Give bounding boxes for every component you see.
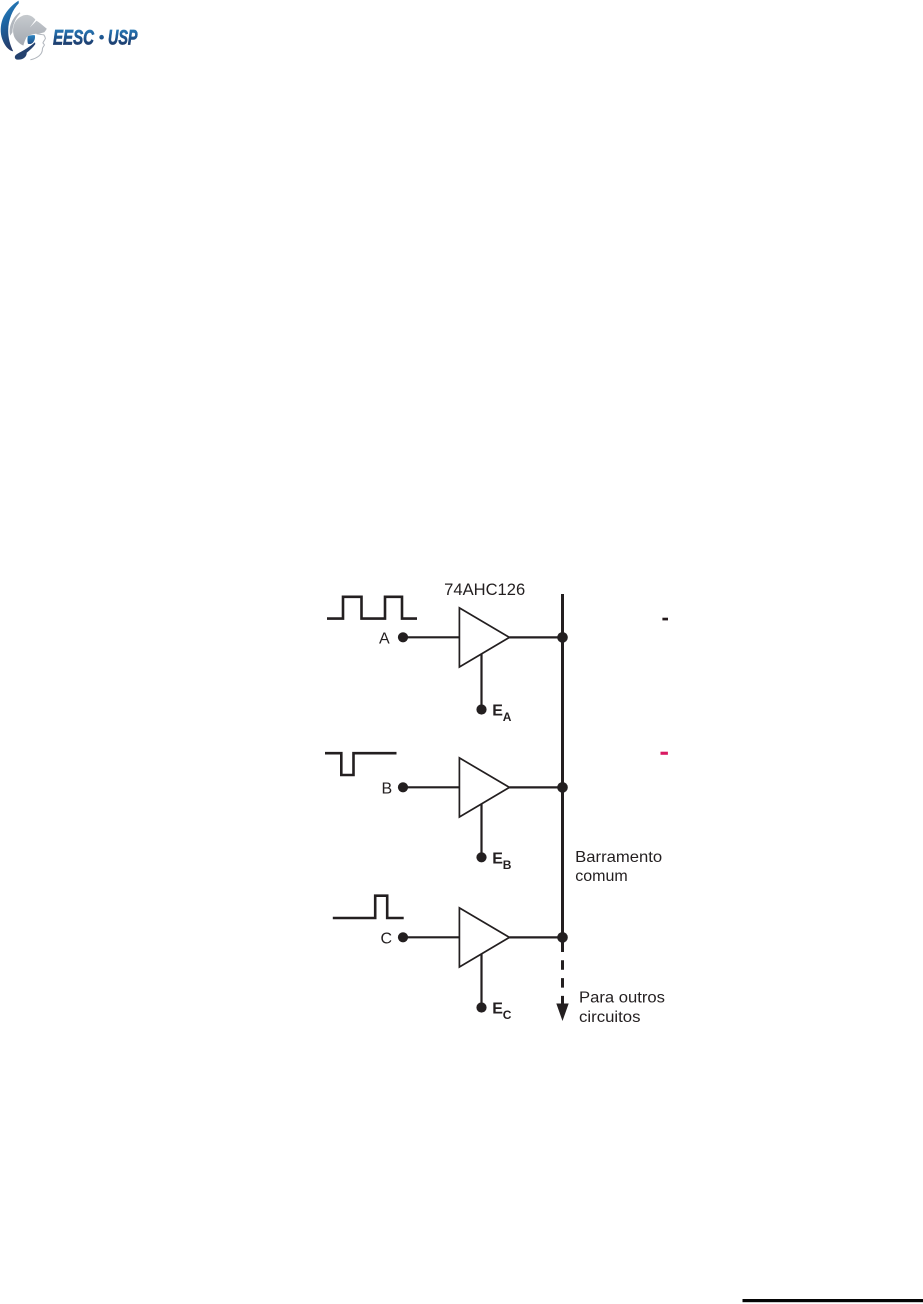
wire enable C [480, 954, 482, 1007]
svg-text:E: E [492, 702, 503, 719]
wire B output [509, 786, 562, 788]
enable EC dot [476, 1002, 486, 1012]
svg-text:B: B [382, 781, 393, 798]
svg-text:74AHC126: 74AHC126 [444, 581, 525, 599]
tri-state buffer U1 (74AHC126) [459, 608, 509, 667]
svg-text:C: C [503, 1008, 512, 1022]
svg-text:A: A [503, 710, 512, 724]
enable EA dot [476, 704, 486, 714]
junction dot B on bus [557, 782, 568, 793]
svg-text:circuitos: circuitos [579, 1009, 641, 1026]
wire A output [509, 636, 562, 638]
enable EB dot [476, 852, 486, 862]
svg-text:E: E [492, 1000, 503, 1017]
EESC USP wordmark [53, 25, 138, 49]
wire C output [509, 936, 562, 938]
waveform A (two positive pulses) [327, 597, 417, 619]
wire enable A [480, 654, 482, 709]
wire B input [403, 786, 460, 788]
wire A input [403, 636, 460, 638]
bus arrowhead [556, 1004, 568, 1022]
svg-text:B: B [503, 858, 512, 872]
svg-text:USP: USP [108, 25, 138, 49]
label EB [492, 850, 511, 872]
label EA [492, 702, 511, 724]
bus dashed continuation [561, 943, 564, 1005]
svg-text:E: E [492, 850, 503, 867]
svg-text:EESC: EESC [53, 25, 94, 49]
waveform B (negative pulse) [325, 753, 397, 775]
junction dot A on bus [557, 632, 568, 643]
node B dot [398, 782, 408, 792]
EESC-USP logo mark [1, 1, 47, 60]
stray dark dash mark [662, 618, 668, 621]
waveform C (positive pulse) [333, 896, 404, 918]
svg-text:comum: comum [575, 868, 628, 885]
tri-state buffer U2 (74AHC126) [459, 758, 509, 817]
svg-text:C: C [381, 931, 393, 948]
junction dot C on bus [557, 932, 568, 943]
svg-text:A: A [379, 631, 390, 648]
wire C input [403, 936, 460, 938]
svg-text:Barramento: Barramento [575, 849, 662, 866]
bus common vertical wire [561, 594, 564, 940]
label EC [492, 1000, 511, 1022]
node A dot [398, 632, 408, 642]
svg-text:Para outros: Para outros [579, 990, 665, 1007]
stray pink dash mark [661, 752, 668, 755]
tri-state buffer U3 (74AHC126) [459, 908, 509, 967]
bottom rule [743, 1299, 923, 1302]
wire enable B [480, 804, 482, 857]
node C dot [398, 932, 408, 942]
